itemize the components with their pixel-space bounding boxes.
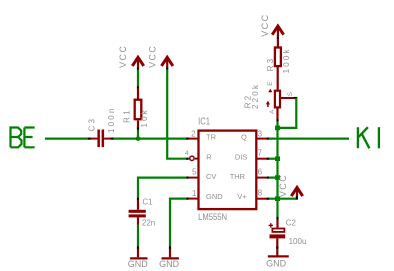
VCC symbol 4 (top right, above R3) <box>260 13 284 39</box>
VCC symbol 1 <box>118 45 144 70</box>
svg-text:3: 3 <box>258 129 263 138</box>
wire DIS to bus <box>269 158 278 160</box>
svg-text:4: 4 <box>185 150 189 157</box>
node pot junction dot <box>275 126 280 131</box>
svg-text:IC1: IC1 <box>198 116 210 127</box>
svg-text:100k: 100k <box>282 47 291 73</box>
wire BE to C3 <box>45 138 89 140</box>
capacitor C1 <box>129 198 156 228</box>
svg-text:8: 8 <box>258 188 263 197</box>
svg-text:10k: 10k <box>140 108 149 128</box>
ground GND3 <box>266 256 289 268</box>
svg-text:100u: 100u <box>289 237 307 246</box>
svg-text:7: 7 <box>258 148 263 157</box>
svg-text:2: 2 <box>191 129 196 138</box>
pin 5 CV <box>186 177 189 179</box>
ground GND2 <box>159 246 180 269</box>
pin 1 GND <box>186 198 189 200</box>
svg-text:C3: C3 <box>87 117 96 132</box>
wire GND pin to GND2 <box>170 199 187 247</box>
svg-text:220k: 220k <box>251 83 260 109</box>
svg-text:C1: C1 <box>142 198 153 207</box>
svg-text:A: A <box>269 109 276 114</box>
svg-text:Q: Q <box>241 132 247 141</box>
wire C3 to junction <box>113 138 139 140</box>
svg-text:E: E <box>267 81 274 86</box>
svg-text:DIS: DIS <box>235 153 248 162</box>
svg-text:VCC: VCC <box>278 174 288 197</box>
wire pot wiper loop <box>278 98 297 128</box>
resistor R1 <box>122 86 149 130</box>
capacitor C3 <box>87 106 116 147</box>
node BE (input label) <box>10 128 34 148</box>
svg-text:THR: THR <box>230 172 246 181</box>
pin 7 DIS <box>256 158 267 160</box>
svg-text:R: R <box>206 153 212 162</box>
svg-text:LM555N: LM555N <box>198 212 227 223</box>
pin 4 R (inverted bubble) <box>190 156 194 160</box>
svg-text:GND: GND <box>128 259 149 269</box>
resistor R3 <box>266 39 291 90</box>
svg-text:S: S <box>287 91 294 96</box>
wire junction to IC pin TR <box>138 138 187 140</box>
wire VCC1 to R1 <box>137 70 139 87</box>
svg-text:5: 5 <box>192 168 197 177</box>
svg-text:6: 6 <box>258 167 263 176</box>
svg-text:CV: CV <box>206 172 216 181</box>
wire Q to KI <box>269 138 349 140</box>
svg-text:GND: GND <box>206 192 223 201</box>
node V+ junction dot <box>275 196 280 201</box>
ground GND1 <box>128 246 149 269</box>
wire VCC2 down to reset pin <box>167 70 186 159</box>
pin 6 THR <box>256 177 267 179</box>
svg-text:VCC: VCC <box>147 45 157 68</box>
pin 8 V+ <box>256 198 267 200</box>
node KI (output label) <box>358 127 379 148</box>
capacitor C2 (polarized) <box>269 217 307 256</box>
wire CV to C1 <box>138 178 187 198</box>
VCC symbol 3 (at V+ pin) <box>278 174 303 200</box>
wire R1 to junction <box>137 130 139 139</box>
svg-text:22n: 22n <box>142 219 155 228</box>
node THR junction dot <box>275 175 280 180</box>
potentiometer R2 (trimmer) <box>243 81 297 122</box>
svg-text:GND: GND <box>159 259 180 269</box>
svg-text:VCC: VCC <box>118 45 128 68</box>
svg-text:V+: V+ <box>237 192 247 201</box>
node DIS junction dot <box>275 156 280 161</box>
svg-text:C2: C2 <box>286 219 297 228</box>
svg-text:TR: TR <box>206 132 217 141</box>
svg-text:R1: R1 <box>122 108 131 123</box>
wire C1 to GND1 <box>137 225 139 247</box>
VCC symbol 2 <box>147 45 173 70</box>
op IC1 LM555N box <box>198 116 256 223</box>
svg-text:GND: GND <box>266 259 287 269</box>
node A junction dot <box>136 136 141 141</box>
pin 3 Q <box>256 138 267 140</box>
pin 2 TR <box>186 138 189 140</box>
wire THR to bus <box>269 177 278 179</box>
svg-text:1: 1 <box>192 189 197 198</box>
svg-text:100n: 100n <box>107 106 116 133</box>
svg-text:VCC: VCC <box>260 13 270 36</box>
svg-text:R3: R3 <box>266 57 275 72</box>
wire V+ to VCC3 <box>269 198 297 200</box>
wire pot down the right bus <box>276 121 278 217</box>
